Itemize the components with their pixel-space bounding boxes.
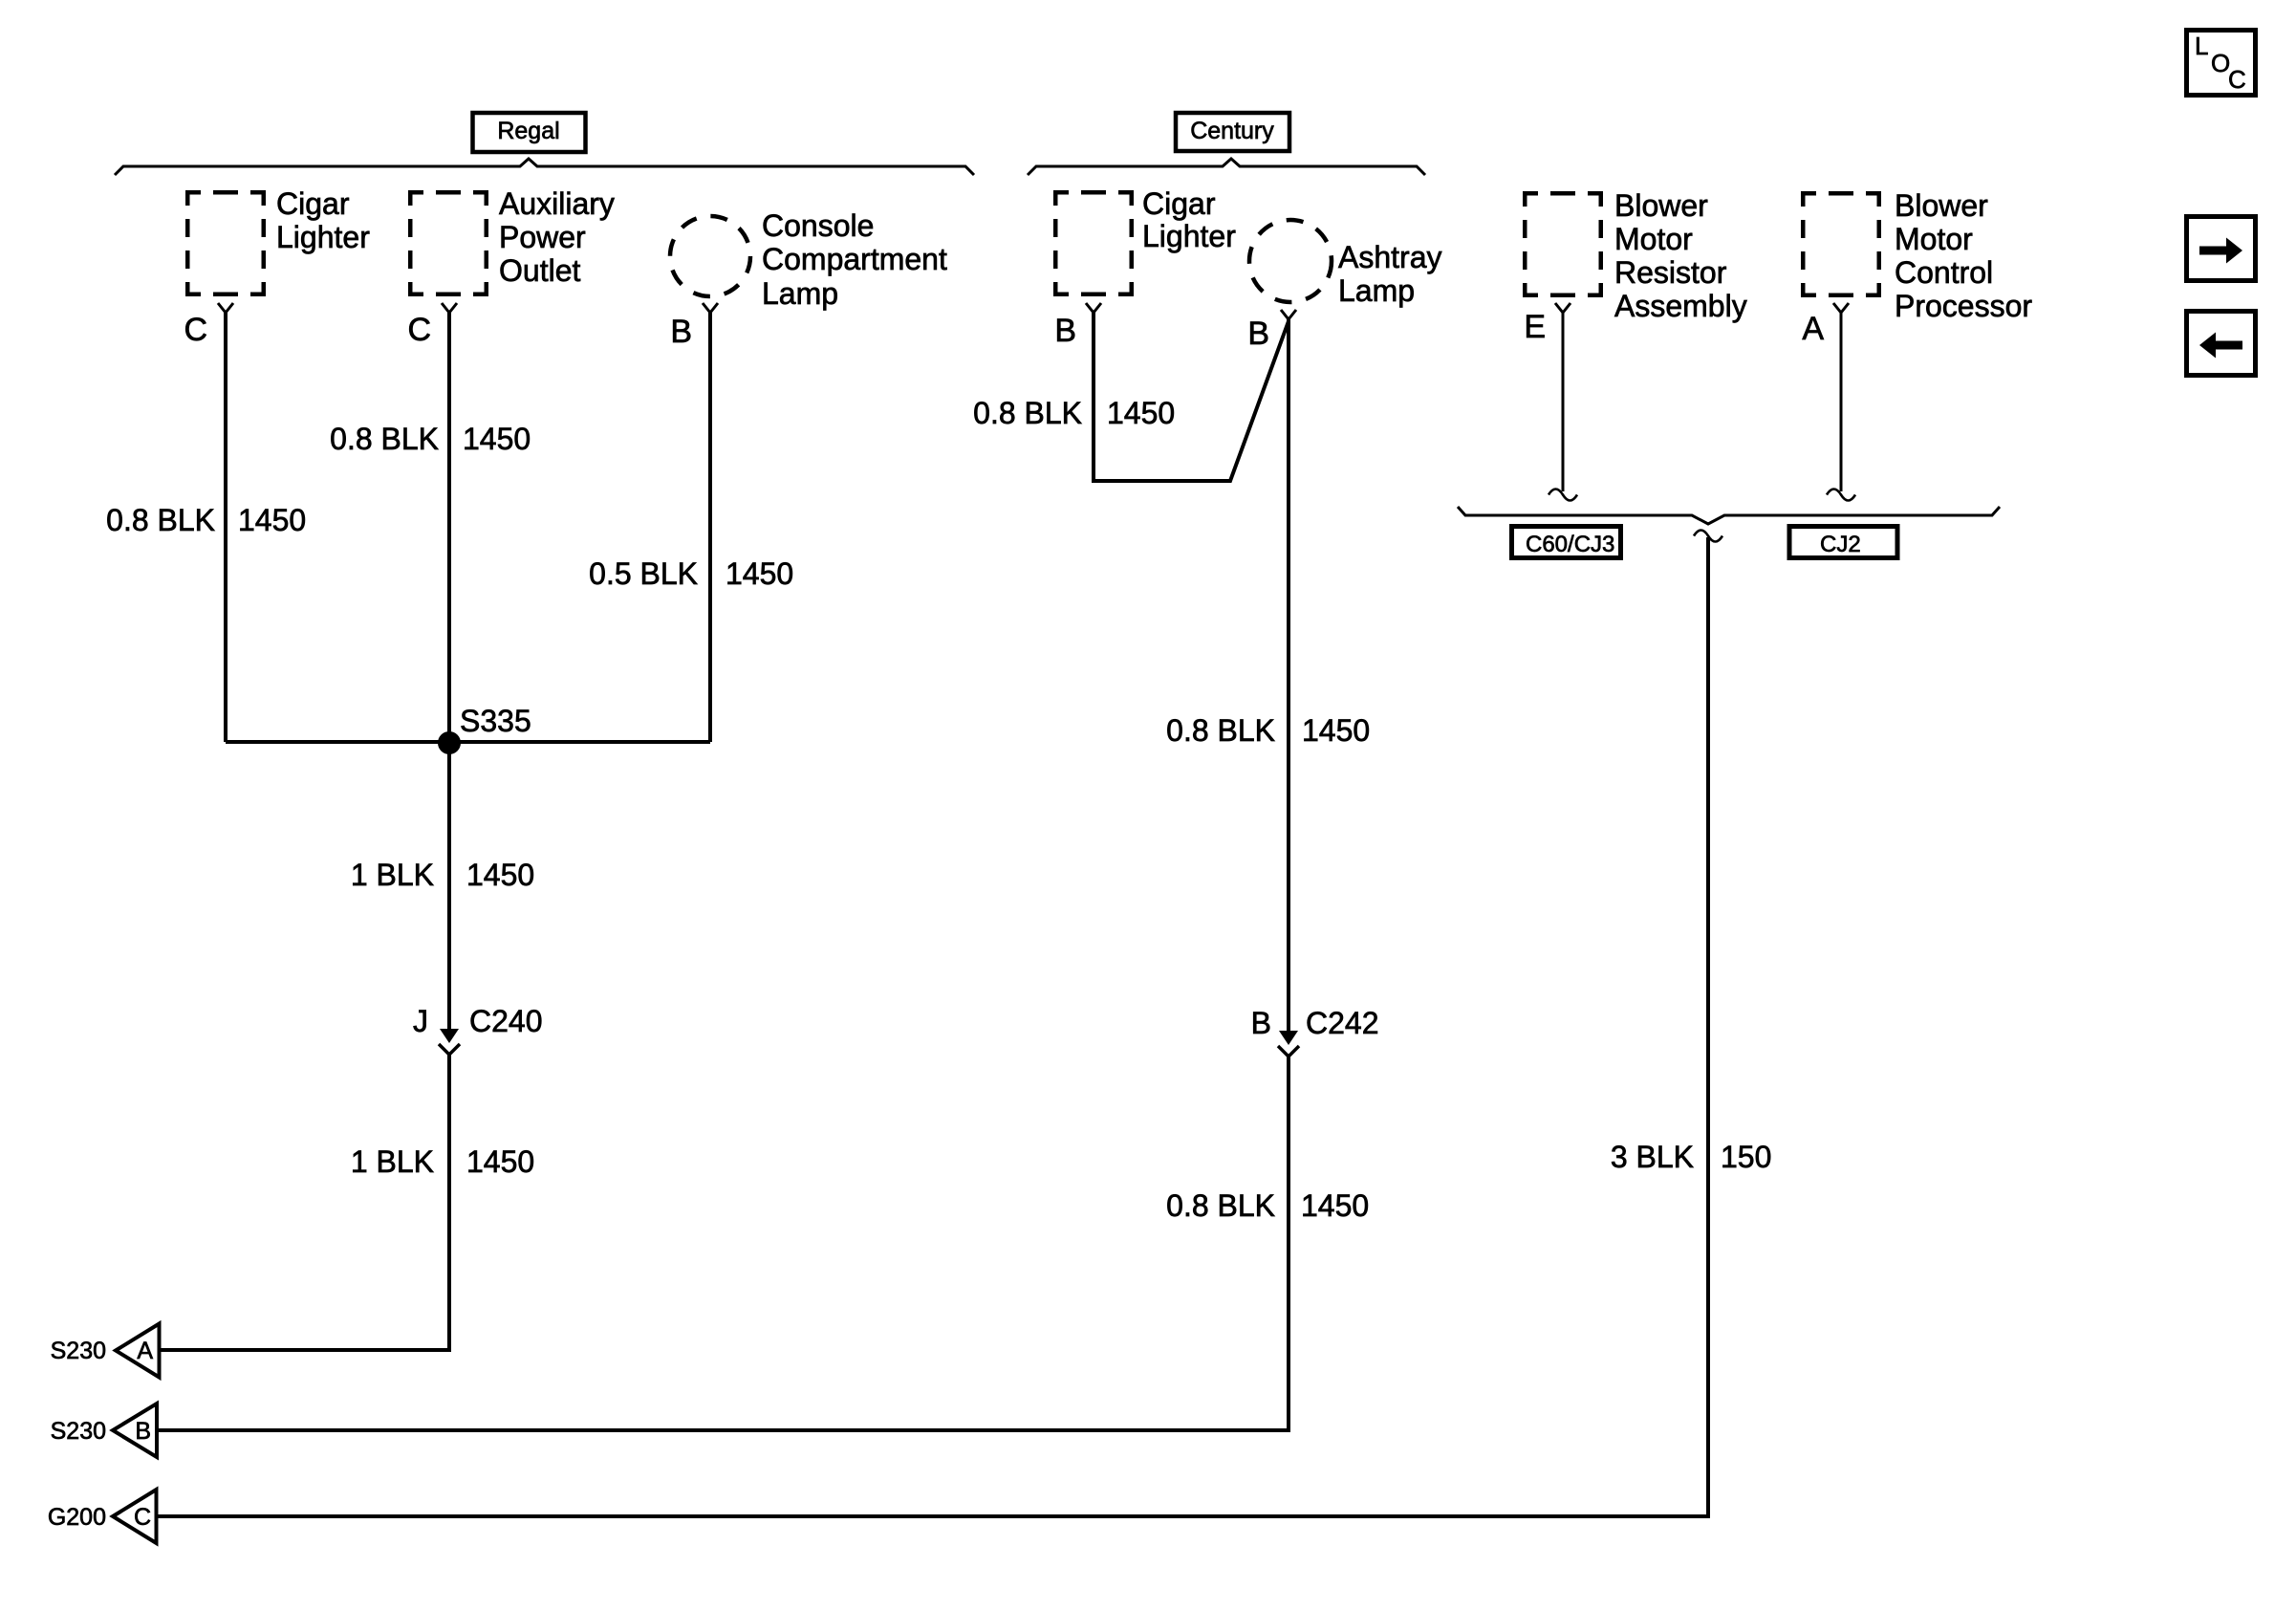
- svg-text:G200: G200: [48, 1504, 106, 1531]
- svg-text:Cigar: Cigar: [1142, 186, 1216, 221]
- svg-text:Resistor: Resistor: [1614, 255, 1727, 290]
- svg-text:Ashtray: Ashtray: [1338, 240, 1441, 274]
- svg-text:C: C: [134, 1504, 151, 1531]
- svg-text:C60/CJ3: C60/CJ3: [1526, 532, 1614, 557]
- svg-text:Blower: Blower: [1614, 188, 1708, 223]
- pin B of Ashtray Lamp: [1281, 310, 1296, 319]
- svg-text:1450: 1450: [466, 1144, 534, 1179]
- svg-text:Blower: Blower: [1895, 188, 1988, 223]
- svg-text:S335: S335: [460, 704, 531, 738]
- svg-text:C242: C242: [1306, 1006, 1379, 1040]
- svg-text:Assembly: Assembly: [1614, 289, 1747, 323]
- svg-text:CJ2: CJ2: [1820, 532, 1861, 557]
- svg-text:0.8 BLK: 0.8 BLK: [1166, 1188, 1275, 1223]
- svg-text:Cigar: Cigar: [276, 186, 350, 221]
- wire: Century cigar lighter 0.8 BLK 1450 jog to ashtray pin: [1094, 313, 1289, 481]
- connector label C60/CJ3: [1512, 527, 1621, 558]
- svg-text:0.8 BLK: 0.8 BLK: [1166, 713, 1275, 748]
- left arrow button: [2187, 312, 2256, 376]
- svg-text:1450: 1450: [1302, 713, 1370, 748]
- svg-text:1450: 1450: [1301, 1188, 1369, 1223]
- splice S335: [438, 731, 461, 754]
- wire: Console lamp ground 0.5 BLK 1450: [708, 313, 712, 742]
- svg-text:B: B: [1251, 1006, 1271, 1040]
- connector C242 pin B (inline break): [1278, 1031, 1299, 1056]
- wire: Auxiliary outlet ground 0.8 BLK 1450: [447, 313, 451, 1031]
- brace C60/CJ3 CJ2: [1458, 507, 2000, 524]
- svg-text:B: B: [135, 1418, 151, 1445]
- svg-text:Console: Console: [762, 208, 874, 243]
- svg-text:0.8 BLK: 0.8 BLK: [330, 422, 439, 456]
- Regal group brace: [115, 159, 974, 175]
- svg-text:Compartment: Compartment: [762, 242, 947, 276]
- svg-text:0.5 BLK: 0.5 BLK: [589, 556, 698, 591]
- svg-text:1450: 1450: [726, 556, 793, 591]
- svg-text:B: B: [670, 314, 692, 350]
- svg-text:S230: S230: [51, 1418, 106, 1445]
- svg-text:C240: C240: [469, 1004, 543, 1038]
- svg-text:Processor: Processor: [1895, 289, 2032, 323]
- component: Blower Motor Resistor Assembly (dashed box): [1523, 191, 1603, 297]
- component: Console Compartment Lamp (dashed circle): [670, 216, 750, 296]
- wire: resistor pin E lead: [1562, 313, 1565, 491]
- wire: 1 BLK 1450 below C240 to S230 A: [158, 1054, 449, 1350]
- svg-text:1 BLK: 1 BLK: [351, 1144, 434, 1179]
- pin C of Regal Cigar Lighter: [218, 303, 233, 313]
- LOC legend box: [2187, 31, 2256, 96]
- svg-text:150: 150: [1721, 1140, 1771, 1174]
- node Century: group label box: [1176, 113, 1289, 151]
- svg-text:B: B: [1054, 313, 1076, 349]
- svg-text:Century: Century: [1190, 118, 1274, 144]
- svg-text:Control: Control: [1895, 255, 1993, 290]
- wire: 3 BLK 150 ground to G200 C: [157, 537, 1708, 1516]
- svg-text:Power: Power: [499, 220, 586, 254]
- svg-text:C: C: [2228, 65, 2246, 94]
- svg-text:Lamp: Lamp: [1338, 273, 1415, 308]
- pin A of Blower Motor Control Processor: [1833, 303, 1849, 313]
- svg-text:Regal: Regal: [497, 118, 559, 144]
- node Regal: group label box: [473, 113, 586, 152]
- svg-text:A: A: [137, 1338, 153, 1364]
- wire: S230 A row: [158, 1348, 450, 1352]
- wire end tilde A: [1827, 490, 1855, 501]
- svg-text:1450: 1450: [466, 858, 534, 892]
- svg-text:C: C: [407, 312, 431, 348]
- svg-text:1 BLK: 1 BLK: [351, 858, 434, 892]
- svg-text:A: A: [1802, 311, 1824, 347]
- svg-text:L: L: [2195, 32, 2208, 60]
- wire: processor pin A lead: [1840, 313, 1843, 491]
- svg-text:J: J: [413, 1004, 428, 1038]
- svg-text:Lighter: Lighter: [276, 220, 370, 254]
- node S230 B triangle: [51, 1404, 157, 1457]
- svg-text:C: C: [184, 312, 207, 348]
- component: Auxiliary Power Outlet (dashed box): [408, 190, 488, 296]
- connector C240 pin J (inline break): [439, 1029, 460, 1055]
- svg-text:Motor: Motor: [1895, 222, 1973, 256]
- svg-text:Lamp: Lamp: [762, 276, 838, 311]
- pin E of Blower Motor Resistor Assembly: [1555, 303, 1570, 313]
- wire end tilde E: [1549, 490, 1577, 501]
- svg-text:Auxiliary: Auxiliary: [499, 186, 615, 221]
- component: Blower Motor Control Processor (dashed box): [1801, 191, 1881, 297]
- wire: Ashtray lamp ground 0.8 BLK 1450: [1287, 319, 1290, 1033]
- svg-text:1450: 1450: [1107, 396, 1175, 430]
- pin B of Console Compartment Lamp: [703, 303, 718, 313]
- svg-text:0.8 BLK: 0.8 BLK: [973, 396, 1082, 430]
- svg-text:Lighter: Lighter: [1142, 219, 1236, 253]
- right arrow button: [2187, 217, 2256, 281]
- pin B of Century Cigar Lighter: [1086, 303, 1101, 313]
- component: Regal Cigar Lighter (dashed box): [185, 190, 266, 296]
- svg-text:B: B: [1247, 316, 1269, 352]
- wire start tilde below brace: [1694, 531, 1722, 542]
- wire: S335 junction bar: [226, 740, 710, 744]
- wire: 0.8 BLK 1450 below C242 to S230 B: [157, 1056, 1289, 1430]
- svg-text:1450: 1450: [238, 503, 306, 537]
- pin C of Auxiliary Power Outlet: [442, 303, 457, 313]
- component: Ashtray Lamp (dashed circle): [1249, 220, 1332, 302]
- svg-text:S230: S230: [51, 1338, 106, 1364]
- Century group brace: [1028, 159, 1425, 175]
- component: Century Cigar Lighter (dashed box): [1053, 190, 1134, 296]
- svg-text:1450: 1450: [463, 422, 531, 456]
- svg-text:E: E: [1524, 309, 1546, 345]
- node S230 A triangle: [51, 1324, 160, 1378]
- connector label CJ2: [1789, 527, 1897, 558]
- svg-text:0.8 BLK: 0.8 BLK: [106, 503, 215, 537]
- svg-text:Motor: Motor: [1614, 222, 1693, 256]
- wire: Regal cigar lighter ground 0.8 BLK 1450: [224, 313, 227, 742]
- node G200 C triangle: [48, 1490, 157, 1543]
- svg-text:Outlet: Outlet: [499, 253, 580, 288]
- svg-text:3 BLK: 3 BLK: [1611, 1140, 1694, 1174]
